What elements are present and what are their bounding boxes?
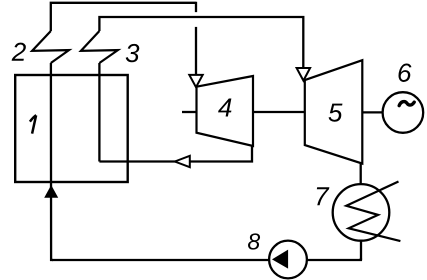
generator 6 (circle) <box>383 92 424 133</box>
wire: main steam top run (x=51 up, across to x=196) <box>51 2 196 31</box>
turbine 5 (LP turbine) <box>305 60 363 163</box>
label 2 <box>12 43 26 61</box>
label 6 <box>398 64 411 82</box>
pump impeller triangle (filled, left) <box>272 250 288 269</box>
wire: condensate drop from condenser to bottom line <box>360 241 362 260</box>
wire: shaft between turbine 4 and turbine 5 <box>253 111 305 113</box>
arrow into turbine 5 (hollow, down) <box>297 68 311 81</box>
generator tilde symbol <box>399 102 414 106</box>
boiler 1 (steam generator box) <box>15 75 128 182</box>
wire: condensate line from condenser to pump <box>307 258 361 260</box>
pump 8 (circle) <box>269 241 307 279</box>
wire: shaft stub left of turbine 4 <box>182 111 197 113</box>
label 8 <box>248 233 260 249</box>
wire: cold reheat line from turbine 4 down and left into boiler <box>99 146 252 162</box>
wire: turbine 5 exhaust down to condenser <box>360 164 362 185</box>
label 4 <box>218 99 231 117</box>
arrow on reheat line (hollow, left) <box>175 156 190 167</box>
condenser 7 (circle) <box>333 184 390 241</box>
condenser cooling zigzag <box>346 182 400 242</box>
break symbol on line 3 <box>81 31 118 63</box>
label 7 <box>317 187 330 205</box>
break symbol on line 2 <box>32 31 69 63</box>
wire: feedwater bottom line from pump to riser corner <box>52 259 269 261</box>
arrow into turbine 4 (hollow, down) <box>189 75 202 87</box>
wire: hot reheat top run to LP turbine <box>99 17 303 68</box>
wire: feedwater riser / main steam line through boiler (x=51) <box>51 63 53 260</box>
wire: steam drop into HP turbine (below crossover gap) <box>195 27 197 75</box>
turbine 4 (HP turbine) <box>197 76 254 146</box>
label 1 <box>30 115 36 133</box>
label 5 <box>329 104 343 122</box>
wire: shaft from turbine 5 to generator <box>362 111 382 113</box>
label 3 <box>126 44 140 62</box>
wire: hot reheat riser inside boiler (x=99.4) <box>98 63 100 162</box>
arrow into boiler bottom (filled, up) <box>44 185 58 198</box>
